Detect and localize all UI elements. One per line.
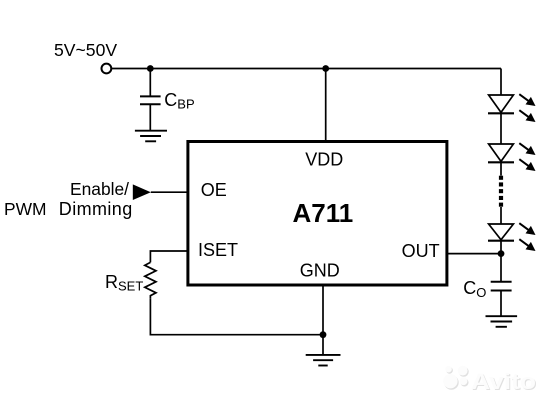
capacitor CO [491,282,512,291]
wire main top rail [112,68,501,70]
svg-text:OE: OE [201,180,227,200]
wire RSET to GND rail [150,298,323,334]
OE input buffer triangle [133,184,151,200]
ground (CBP) [135,131,167,142]
wire LED3 to OUT node [500,241,502,282]
svg-text:5V~50V: 5V~50V [54,40,117,60]
IC U1 A711 [188,142,447,286]
wire LED2 to dashed [500,162,502,175]
node junction CBP [147,65,154,72]
LED D1 [488,94,536,122]
wire OE [151,191,188,193]
wire CBP to ground [149,104,151,130]
svg-text:OUT: OUT [402,241,440,261]
svg-text:GND: GND [300,261,340,281]
LED D2 [488,143,536,171]
wire top rail corner down to LED string [500,69,502,96]
input terminal circle [102,64,112,74]
svg-text:Dimming: Dimming [59,199,133,219]
wire dashed to LED3 [500,207,502,224]
svg-text:Enable/: Enable/ [70,179,129,199]
ground (CO) [486,316,518,327]
wire LED1 to LED2 [500,113,502,144]
svg-text:Avito: Avito [471,369,536,394]
wire GND pin down [322,285,324,355]
wire CBP branch [149,69,151,96]
resistor RSET [145,262,156,298]
LED D3 [488,223,536,251]
wire VDD branch [325,69,327,142]
wire CO to ground [500,291,502,316]
wire dashed (more LEDs) [499,176,503,207]
wire OUT [446,253,501,255]
svg-text:VDD: VDD [305,150,343,170]
ground (main) [306,355,341,366]
node junction VDD [322,65,329,72]
node junction OUT [498,250,505,257]
node junction GND [320,331,327,338]
wire ISET [150,251,188,262]
svg-text:A711: A711 [293,198,354,228]
watermark Avito logo [443,366,537,395]
svg-text:ISET: ISET [198,240,238,260]
svg-text:PWM: PWM [4,199,47,219]
capacitor CBP [140,96,161,104]
